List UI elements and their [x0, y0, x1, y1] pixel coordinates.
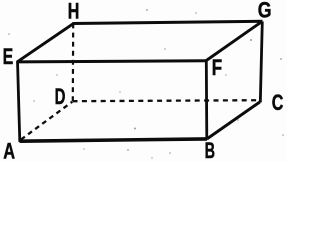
svg-text:A: A	[3, 139, 15, 163]
edge EF (top front, solid)	[18, 61, 208, 62]
edge AD (hidden, dashed)	[21, 102, 72, 140]
edge AB (bottom front, solid)	[20, 139, 208, 141]
svg-text:C: C	[272, 90, 284, 115]
svg-text:G: G	[258, 0, 272, 23]
edge DH (hidden left back vertical, dashed)	[72, 25, 75, 102]
svg-text:D: D	[55, 84, 66, 109]
edge AE (left vertical, solid)	[18, 61, 20, 142]
edge DC (hidden back bottom, dashed)	[73, 100, 260, 101]
scan noise specks	[8, 9, 284, 159]
svg-text:F: F	[212, 55, 222, 80]
svg-text:E: E	[3, 44, 14, 69]
svg-text:H: H	[68, 0, 80, 23]
edge EH (top-left diagonal, solid)	[18, 24, 74, 62]
edge FG (top-right diagonal, solid)	[206, 22, 262, 61]
edge HG (top back, solid)	[73, 21, 263, 23]
edge GC (right back vertical, solid)	[260, 22, 262, 103]
edge BC (bottom-right diagonal, solid)	[207, 102, 260, 139]
edge BF (right front vertical, solid)	[205, 60, 208, 140]
svg-text:B: B	[205, 138, 215, 162]
